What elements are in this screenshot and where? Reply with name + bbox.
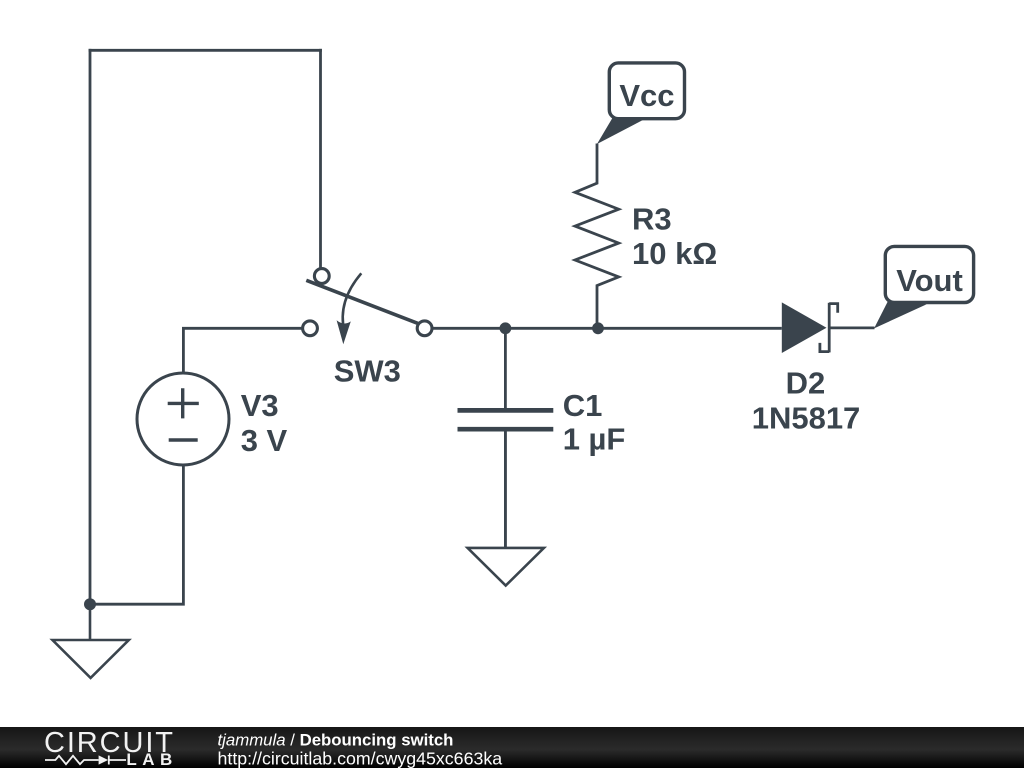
- svg-text:http://circuitlab.com/cwyg45xc: http://circuitlab.com/cwyg45xc663ka: [218, 748, 503, 768]
- svg-text:3 V: 3 V: [241, 423, 288, 458]
- capacitor C1 top plate: [458, 408, 554, 413]
- voltage source V3 plus sign: [168, 388, 199, 418]
- diode D2 schottky bottom hook: [820, 343, 829, 352]
- switch SW3 blade: [306, 280, 418, 323]
- switch SW3 top terminal circle: [314, 269, 329, 284]
- svg-text:Vcc: Vcc: [619, 78, 674, 113]
- svg-text:V3: V3: [241, 388, 279, 423]
- junction dot R3 branch: [592, 322, 604, 334]
- switch SW3 right terminal circle: [417, 321, 432, 336]
- footer bar: [0, 727, 1024, 768]
- Vout flag box: [885, 246, 973, 302]
- svg-text:1 µF: 1 µF: [563, 422, 626, 457]
- ground (bottom left): [53, 604, 129, 678]
- svg-text:10 kΩ: 10 kΩ: [632, 236, 717, 271]
- junction dot C1 branch: [500, 322, 512, 334]
- svg-text:tjammula / Debouncing switch: tjammula / Debouncing switch: [218, 730, 454, 749]
- svg-text:LAB: LAB: [126, 750, 177, 768]
- Vcc flag box: [609, 63, 684, 119]
- svg-text:R3: R3: [632, 202, 672, 237]
- CircuitLab logo diode symbol: [99, 755, 109, 764]
- switch SW3 arrowhead: [337, 320, 351, 344]
- wire switch to diode (node): [433, 327, 782, 330]
- switch SW3 actuation arrow arc: [343, 273, 362, 331]
- Vout flag tail: [874, 300, 927, 328]
- voltage source V3 minus sign: [169, 438, 198, 441]
- svg-text:1N5817: 1N5817: [752, 401, 861, 436]
- svg-text:C1: C1: [563, 388, 603, 423]
- svg-text:D2: D2: [786, 366, 826, 401]
- Vcc flag tail: [597, 117, 646, 144]
- ground (below C1): [468, 432, 544, 586]
- wire V3 bottom lead: [89, 465, 184, 604]
- wire top horizontal: [89, 49, 322, 52]
- switch SW3 left terminal circle: [303, 321, 318, 336]
- junction dot at left bottom corner node: [84, 598, 96, 610]
- capacitor C1 bottom lead: [504, 432, 507, 548]
- svg-text:Vout: Vout: [896, 263, 963, 298]
- CircuitLab logo resistor squiggle: [45, 756, 99, 764]
- voltage source V3 circle: [137, 373, 229, 465]
- diode D2 anode triangle: [782, 302, 827, 353]
- resistor R3: [575, 144, 619, 329]
- diode D2 schottky top hook: [829, 304, 838, 313]
- diode D2 schottky cathode bar: [828, 303, 831, 353]
- svg-text:SW3: SW3: [334, 354, 401, 389]
- wire left vertical: [89, 49, 92, 604]
- capacitor C1 bottom plate: [458, 427, 554, 432]
- wire right vertical to switch: [319, 49, 322, 268]
- capacitor C1 top lead: [504, 328, 507, 408]
- wire V3 top lead to switch: [183, 328, 301, 372]
- wire diode to Vout tail: [829, 326, 874, 329]
